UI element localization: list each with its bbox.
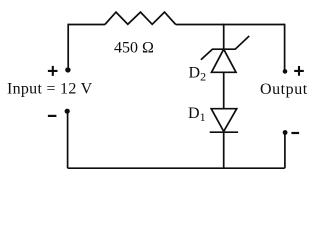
svg-text:450 Ω: 450 Ω bbox=[114, 39, 154, 56]
wire left vertical upper bbox=[67, 24, 69, 68]
zener diode D2 cathode bar with bent ends bbox=[201, 36, 249, 60]
wire top-left horizontal bbox=[68, 24, 105, 26]
wire right vertical lower bbox=[284, 134, 286, 168]
node dot input - terminal bbox=[65, 109, 70, 114]
wire left vertical lower bbox=[67, 113, 69, 169]
wire right vertical upper bbox=[284, 24, 286, 70]
node dot output - terminal bbox=[283, 130, 288, 135]
wire middle branch lower (D1 to bottom line) bbox=[223, 132, 225, 168]
wire between D2 and D1 bbox=[223, 72, 225, 108]
plus sign input bbox=[48, 66, 58, 76]
node dot input + terminal bbox=[65, 67, 70, 72]
svg-text:Output: Output bbox=[260, 81, 308, 98]
plus sign output bbox=[294, 66, 304, 76]
diode D1 cathode bar bbox=[210, 131, 238, 133]
node dot output + terminal bbox=[283, 69, 288, 74]
zener diode D2 triangle bbox=[212, 49, 237, 72]
wire top-right horizontal bbox=[176, 24, 285, 26]
wire bottom horizontal bbox=[68, 167, 285, 169]
minus sign output bbox=[291, 132, 299, 134]
resistor 450 ohm zigzag bbox=[105, 12, 176, 24]
minus sign input bbox=[48, 115, 57, 117]
svg-text:Input = 12 V: Input = 12 V bbox=[7, 81, 93, 98]
wire middle branch upper (top line to D2) bbox=[223, 24, 225, 50]
diode D1 triangle bbox=[211, 109, 237, 132]
